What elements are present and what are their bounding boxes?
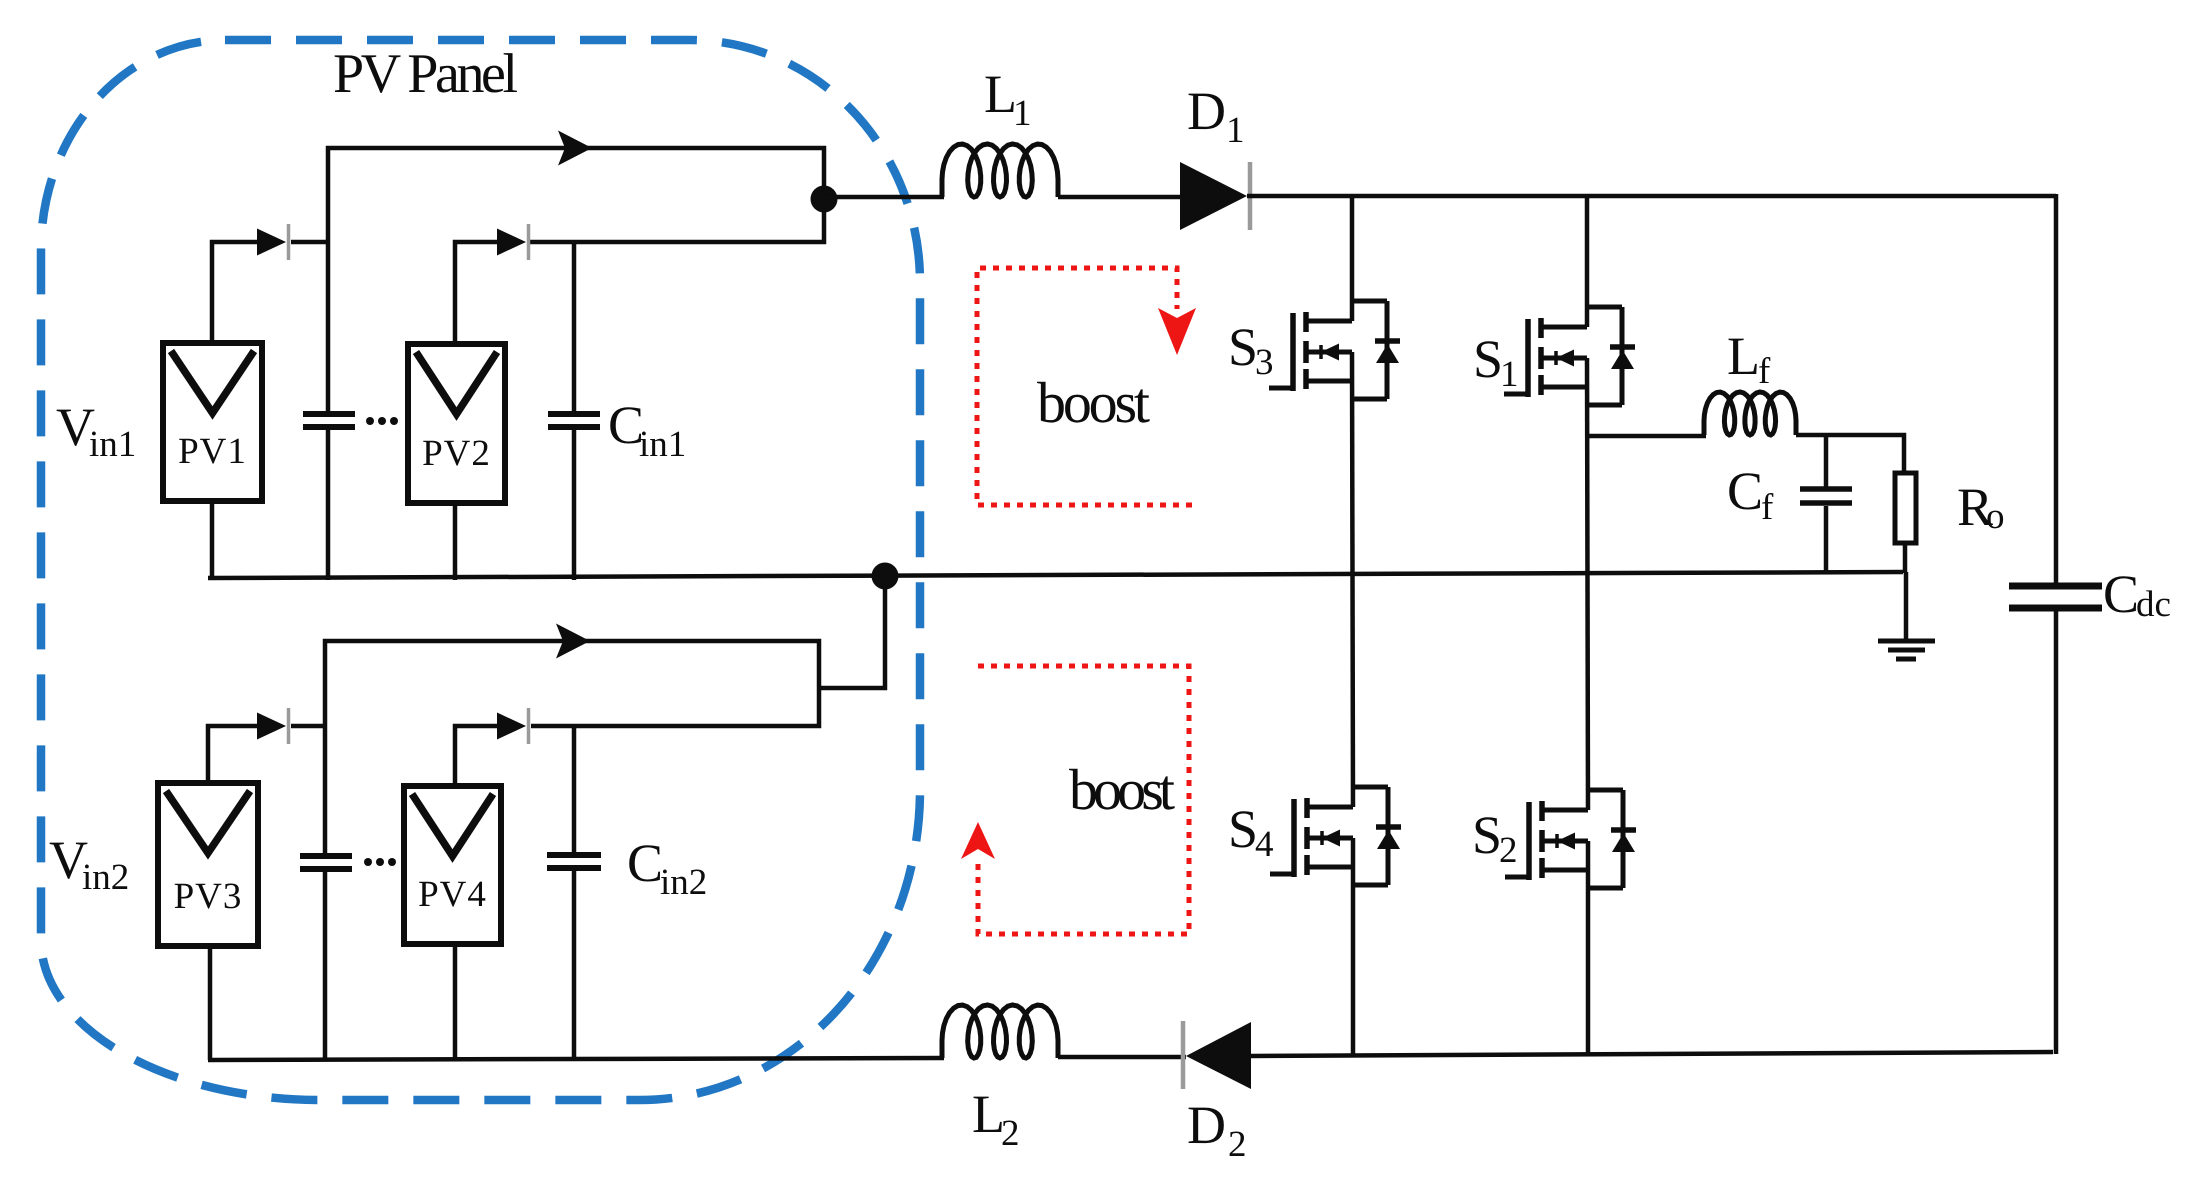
- label S3: [1228, 317, 1274, 383]
- wire right rail lower: [2054, 611, 2059, 1054]
- capacitor Cdc: [2009, 586, 2102, 608]
- wire bottom bus left: [208, 1058, 944, 1060]
- wire capacitor string2 to bottom bus: [323, 872, 328, 1060]
- label S1: [1473, 329, 1519, 395]
- resistor Ro: [1895, 473, 1916, 543]
- svg-text:S: S: [1473, 329, 1503, 389]
- svg-text:in1: in1: [89, 424, 136, 465]
- svg-text:S: S: [1228, 317, 1258, 377]
- label D1: [1187, 81, 1245, 151]
- svg-text:1: 1: [1226, 110, 1245, 151]
- transistor S2 (MOSFET): [1505, 790, 1636, 888]
- svg-text:2: 2: [1001, 1113, 1020, 1154]
- wire string2 output jog to node B: [819, 576, 885, 688]
- svg-text:PV2: PV2: [422, 433, 491, 474]
- svg-text:3: 3: [1255, 342, 1274, 383]
- capacitor Cin2 plates: [547, 855, 601, 868]
- label boost (bottom loop): [1069, 757, 1175, 822]
- wire PV3 top lead: [208, 726, 257, 784]
- PV Panel boundary (blue dashed rounded box): [41, 40, 920, 1100]
- PV module PV4: [404, 786, 501, 944]
- arrow on string1 top wire: [558, 131, 592, 166]
- svg-text:PV3: PV3: [174, 876, 243, 917]
- wire PV1 diode to riser: [291, 240, 328, 245]
- wire mid bus to ground: [1904, 572, 1909, 640]
- capacitor Cin1 riser: [572, 242, 577, 414]
- wire bottom bus right: [1251, 1052, 2053, 1056]
- ellipsis between cells (bottom): [364, 858, 396, 866]
- wire string2: cap riser, top run, right drop to diode row: [325, 641, 819, 854]
- wire L1 to D1: [1058, 195, 1182, 200]
- PV Panel label: [333, 43, 518, 105]
- junction node A (string1 output): [811, 186, 838, 213]
- svg-text:4: 4: [1255, 824, 1274, 865]
- label Cf: [1727, 461, 1774, 528]
- label Lf: [1727, 326, 1771, 392]
- svg-text:2: 2: [1499, 830, 1518, 871]
- wire PV1 bottom lead: [210, 501, 215, 580]
- label S4: [1228, 799, 1274, 865]
- label L1: [984, 64, 1032, 134]
- ground: [1878, 641, 1935, 659]
- diode PV2 bypass: [497, 224, 529, 260]
- wire PV2 top lead: [455, 242, 497, 345]
- label Ro: [1957, 477, 2005, 537]
- diode D1: [1180, 162, 1250, 230]
- svg-text:C: C: [1727, 461, 1763, 521]
- wire string1: cap riser, top run, right drop to diode row: [328, 148, 824, 414]
- label D2: [1187, 1095, 1247, 1165]
- wire PV2 bottom lead: [453, 503, 458, 580]
- diode D2: [1183, 1021, 1251, 1089]
- capacitor Cf plates: [1800, 489, 1852, 503]
- PV module PV3: [158, 783, 258, 946]
- svg-text:in2: in2: [82, 857, 129, 898]
- wire Cin1 to mid bus: [572, 430, 577, 580]
- wire rail S3 source to S4 drain: [1352, 352, 1353, 807]
- svg-text:boost: boost: [1037, 370, 1150, 435]
- label Cdc: [2103, 564, 2171, 625]
- wire rail S2 source to bottom bus: [1586, 841, 1591, 1054]
- svg-text:L: L: [1727, 326, 1760, 386]
- capacitor Cin1 plates: [548, 414, 600, 427]
- PV module PV2: [408, 344, 505, 503]
- wire rail S1 source to S2 drain: [1587, 358, 1588, 810]
- transistor S4 (MOSFET): [1270, 787, 1401, 885]
- wire rail S1 drain from top bus: [1585, 196, 1590, 327]
- boost loop 1 arrow (down): [1158, 308, 1196, 355]
- label S2: [1472, 805, 1518, 871]
- wire capacitor string1 to mid bus: [326, 430, 331, 580]
- junction node B (string2 output): [872, 563, 899, 590]
- capacitor Cf riser: [1824, 435, 1829, 488]
- transistor S3 (MOSFET): [1269, 301, 1400, 399]
- wire Cf to mid bus: [1824, 506, 1829, 573]
- inductor L2: [942, 1005, 1058, 1058]
- label Vin1: [56, 397, 136, 465]
- wire right rail upper: [2054, 194, 2059, 583]
- wire top bus: [1247, 194, 2056, 199]
- svg-text:in2: in2: [660, 862, 707, 903]
- wire Lf to Ro corner: [1796, 435, 1904, 473]
- svg-text:S: S: [1472, 805, 1502, 865]
- capacitor string2 internal plates: [300, 856, 352, 869]
- svg-text:1: 1: [1013, 93, 1032, 134]
- svg-text:1: 1: [1500, 354, 1519, 395]
- diode PV1 bypass: [257, 224, 289, 260]
- svg-text:D: D: [1187, 1095, 1226, 1155]
- wire PV3 diode to riser: [291, 724, 325, 729]
- inductor Lf: [1704, 392, 1796, 435]
- svg-text:C: C: [627, 833, 663, 893]
- wire L2 to D2: [1058, 1055, 1186, 1060]
- capacitor string1 internal plates: [303, 414, 355, 427]
- inductor L1: [942, 144, 1058, 197]
- svg-text:D: D: [1187, 81, 1226, 141]
- svg-text:C: C: [2103, 564, 2139, 624]
- diode PV3 bypass: [257, 708, 289, 744]
- label Vin2: [49, 830, 129, 898]
- label Cin2: [627, 833, 707, 903]
- wire middle bus: [208, 572, 1903, 578]
- boost loop 1 (red dotted): [977, 268, 1192, 505]
- svg-text:2: 2: [1228, 1124, 1247, 1165]
- svg-text:f: f: [1758, 351, 1771, 392]
- wire rail S3 drain from top bus: [1350, 196, 1355, 321]
- PV module PV1: [163, 343, 262, 501]
- transistor S1 (MOSFET): [1504, 307, 1635, 405]
- wire PV1 top lead: [212, 242, 257, 345]
- svg-text:f: f: [1761, 487, 1774, 528]
- wire PV4 bottom lead: [453, 944, 458, 1059]
- svg-text:o: o: [1986, 496, 2005, 537]
- svg-text:PV1: PV1: [178, 431, 247, 472]
- svg-text:dc: dc: [2136, 584, 2171, 625]
- svg-text:PV Panel: PV Panel: [333, 43, 518, 105]
- svg-text:PV4: PV4: [418, 874, 487, 915]
- diode PV4 bypass: [497, 708, 529, 744]
- svg-text:boost: boost: [1069, 757, 1175, 822]
- wire Ro to mid bus: [1903, 543, 1908, 573]
- wire Cin2 to bottom bus: [572, 871, 577, 1059]
- boost loop 2 (red dotted): [978, 666, 1189, 934]
- label Cin1: [608, 395, 686, 465]
- svg-text:in1: in1: [639, 424, 686, 465]
- label L2: [972, 1084, 1020, 1154]
- svg-text:S: S: [1228, 799, 1258, 859]
- capacitor Cin2 riser: [572, 726, 577, 853]
- wire PV3 bottom lead: [208, 944, 213, 1060]
- wire rail S4 source to bottom bus: [1351, 838, 1356, 1056]
- arrow on string2 top wire: [556, 624, 590, 659]
- wire node A to L1: [824, 195, 944, 200]
- label boost (top loop): [1037, 370, 1150, 435]
- ellipsis between cells (top): [366, 417, 398, 425]
- wire PV4 top lead: [455, 726, 497, 786]
- boost loop 2 arrow (up): [961, 822, 995, 859]
- wire S1 source to Lf: [1588, 434, 1706, 439]
